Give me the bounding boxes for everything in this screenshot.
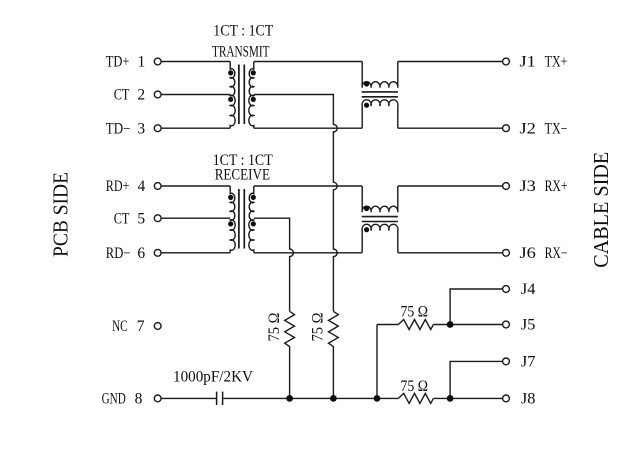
svg-text:J1: J1 (520, 54, 536, 71)
svg-text:1CT : 1CT: 1CT : 1CT (213, 23, 273, 40)
pin 2 CT terminal (154, 91, 161, 98)
wire pin3 to transformer T1 (161, 127, 230, 129)
svg-text:8: 8 (135, 390, 143, 407)
phase dot T1 secondary upper (251, 70, 256, 75)
svg-text:RD−: RD− (106, 245, 131, 262)
svg-text:RX−: RX− (545, 245, 568, 262)
transformer T2 secondary winding (249, 186, 254, 253)
transformer T1 core (239, 65, 244, 125)
pin 6 RD- terminal (154, 249, 161, 256)
terminal J4 (503, 286, 510, 293)
wire junction up to J7 (450, 361, 503, 398)
transformer T1 secondary winding (249, 62, 254, 129)
wire pin6 to transformer T2 (161, 252, 230, 254)
svg-text:NC: NC (112, 318, 127, 335)
svg-text:CT: CT (114, 210, 130, 227)
wire T1 secondary bottom to choke L1 (254, 127, 362, 129)
wire pin2 to transformer T1 center tap (161, 94, 230, 96)
phase dot T2 secondary upper (251, 195, 256, 200)
wire T2 secondary bottom to choke L2 (254, 252, 362, 254)
terminal J7 (503, 358, 510, 365)
svg-text:CABLE SIDE: CABLE SIDE (589, 152, 613, 268)
wire choke L1 to J2 (398, 127, 503, 129)
svg-text:J3: J3 (520, 178, 537, 195)
svg-text:RX+: RX+ (545, 178, 568, 195)
terminal J1 (503, 58, 510, 65)
choke L1 top winding (362, 62, 398, 88)
phase dot T2 secondary lower (251, 221, 256, 226)
svg-text:TD−: TD− (106, 120, 131, 137)
pin 1 TD+ terminal (154, 58, 161, 65)
phase dot T1 secondary lower (251, 97, 256, 102)
pin 8 GND terminal (154, 395, 161, 402)
phase dot choke L2 bottom (364, 227, 369, 232)
terminal J2 (503, 125, 510, 132)
svg-text:TRANSMIT: TRANSMIT (212, 43, 270, 60)
svg-text:6: 6 (137, 245, 145, 262)
svg-text:RD+: RD+ (106, 178, 130, 195)
junction dot R1/GND (286, 395, 293, 402)
phase dot choke L1 bottom (364, 103, 369, 108)
wire GND bus from capacitor to resistor R4 (223, 397, 398, 399)
wire T2 secondary center tap down to R1, hop at crossing (254, 218, 294, 311)
svg-text:5: 5 (137, 210, 145, 227)
terminal J6 (503, 249, 510, 256)
junction dot R3/J5 node (447, 321, 454, 328)
choke L1 bottom winding (362, 100, 398, 128)
wire T2 secondary top to choke L2 (254, 185, 362, 187)
resistor R3 75ohm horizontal (398, 320, 433, 330)
junction dot R2/GND (330, 395, 337, 402)
wire choke L1 to J1 (398, 61, 503, 63)
svg-text:TX−: TX− (545, 120, 568, 137)
svg-text:PCB SIDE: PCB SIDE (49, 172, 73, 257)
svg-text:75 Ω: 75 Ω (266, 313, 283, 342)
wire R3 to J5 (433, 324, 502, 326)
pin 7 NC terminal (154, 323, 161, 330)
transformer T2 primary winding (230, 186, 235, 253)
svg-text:1000pF/2KV: 1000pF/2KV (173, 368, 254, 385)
pin 4 RD+ terminal (154, 183, 161, 190)
svg-text:J4: J4 (521, 281, 536, 298)
wire branch down from R3 to GND bus (376, 325, 378, 399)
svg-text:75 Ω: 75 Ω (309, 313, 326, 342)
junction dot R3 branch/GND (374, 395, 381, 402)
wire choke L2 to J3 (398, 185, 503, 187)
svg-text:J5: J5 (521, 317, 536, 334)
svg-text:3: 3 (137, 120, 145, 137)
wire pin5 to transformer T2 center tap (161, 217, 230, 219)
transformer T1 primary winding (230, 62, 235, 129)
pin 3 TD- terminal (154, 125, 161, 132)
wire choke L2 to J6 (398, 252, 503, 254)
svg-text:75 Ω: 75 Ω (401, 304, 429, 321)
wire pin1 to transformer T1 (161, 61, 230, 63)
phase dot choke L1 top (364, 81, 369, 86)
phase dot T2 primary lower (228, 221, 233, 226)
svg-text:4: 4 (138, 178, 146, 195)
svg-text:TX+: TX+ (545, 54, 568, 71)
wire GND bus resistor R4 to J8 (433, 397, 502, 399)
resistor R2 75ohm vertical (329, 311, 339, 398)
choke L2 core (362, 217, 398, 222)
terminal J3 (503, 183, 510, 190)
wire T1 secondary top to choke L1 (254, 61, 362, 63)
svg-text:J6: J6 (520, 245, 537, 262)
pin 5 CT terminal (154, 215, 161, 222)
svg-text:J7: J7 (521, 354, 536, 371)
svg-text:75 Ω: 75 Ω (401, 378, 429, 395)
junction dot R4/J8 node (447, 395, 454, 402)
wire pin4 to transformer T2 (161, 185, 230, 187)
svg-text:2: 2 (137, 87, 145, 104)
phase dot T1 primary lower (228, 97, 233, 102)
wire T1 secondary center tap down to R2, hops at crossings (254, 95, 337, 312)
terminal J8 (503, 395, 510, 402)
svg-text:GND: GND (102, 390, 126, 407)
svg-text:7: 7 (137, 318, 145, 335)
choke L2 top winding (362, 186, 398, 212)
svg-text:CT: CT (114, 87, 130, 104)
transformer T2 core (239, 189, 244, 249)
choke L1 core (362, 92, 398, 97)
phase dot T2 primary upper (228, 195, 233, 200)
svg-text:J8: J8 (521, 390, 536, 407)
svg-text:1: 1 (138, 54, 146, 71)
svg-text:TD+: TD+ (106, 54, 130, 71)
choke L2 bottom winding (362, 224, 398, 252)
resistor R4 75ohm horizontal on GND bus (398, 393, 433, 403)
wire GND from pin8 to capacitor C1 (161, 397, 216, 399)
wire into resistor R3 (377, 324, 398, 326)
resistor R1 75ohm vertical (285, 311, 295, 398)
terminal J5 (503, 321, 510, 328)
capacitor C1 plates (217, 392, 223, 405)
phase dot choke L2 top (364, 206, 369, 211)
wire junction up to J4 (450, 289, 503, 325)
phase dot T1 primary upper (228, 70, 233, 75)
svg-text:J2: J2 (520, 120, 536, 137)
svg-text:RECEIVE: RECEIVE (215, 166, 270, 183)
